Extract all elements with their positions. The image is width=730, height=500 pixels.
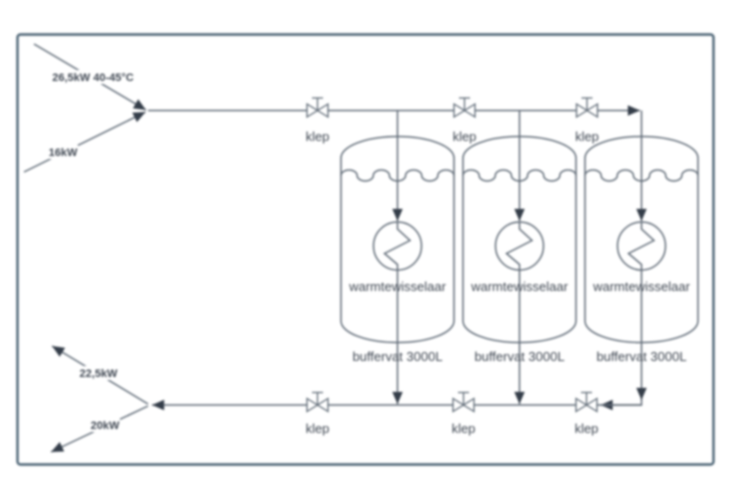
svg-text:klep: klep	[306, 129, 330, 144]
wire return line 20kW	[51, 406, 148, 452]
label 20kW	[90, 418, 120, 432]
svg-text:buffervat 3000L: buffervat 3000L	[352, 349, 442, 364]
heat exchanger U3	[618, 222, 666, 270]
wire supply line 16kW	[24, 112, 146, 172]
wire drop pipe to heat exchanger U1	[397, 111, 399, 222]
label 16kW	[49, 145, 78, 159]
vessel buffervat 1	[341, 137, 454, 343]
valve bottom 2	[453, 393, 474, 412]
svg-text:warmtewisselaar: warmtewisselaar	[470, 279, 568, 294]
svg-text:warmtewisselaar: warmtewisselaar	[592, 279, 690, 294]
svg-text:26,5kW 40-45°C: 26,5kW 40-45°C	[52, 72, 133, 84]
wire top pipe	[148, 110, 640, 112]
label 26,5kW 40-45C	[52, 70, 134, 84]
wire return pipe from U3 down	[641, 270, 643, 400]
wire drop pipe to heat exchanger U2	[519, 111, 521, 222]
valve bottom 3	[576, 393, 597, 412]
svg-text:klep: klep	[575, 421, 599, 436]
svg-text:22,5kW: 22,5kW	[80, 368, 119, 380]
heat exchanger U2	[496, 222, 544, 270]
wire return pipe from U1 to bottom pipe	[397, 270, 399, 404]
wire return pipe from U2 to bottom pipe	[519, 270, 521, 404]
svg-text:klep: klep	[453, 129, 477, 144]
vessel buffervat 2	[463, 137, 576, 343]
valve bottom 1	[307, 393, 328, 412]
valve top 2	[454, 98, 475, 117]
heat exchanger U1	[374, 222, 422, 270]
svg-text:klep: klep	[452, 421, 476, 436]
wire supply line 26,5kW	[34, 44, 146, 110]
wire return line 22,5kW	[52, 346, 148, 404]
valve top 3	[577, 98, 598, 117]
wire drop pipe to heat exchanger U3	[641, 111, 643, 222]
svg-text:klep: klep	[306, 421, 330, 436]
wire bottom pipe	[152, 404, 642, 406]
valve top 1	[307, 98, 328, 117]
svg-text:20kW: 20kW	[91, 420, 120, 432]
svg-text:klep: klep	[575, 129, 599, 144]
svg-text:warmtewisselaar: warmtewisselaar	[348, 279, 446, 294]
svg-text:buffervat 3000L: buffervat 3000L	[596, 349, 686, 364]
vessel buffervat 3	[585, 137, 698, 343]
svg-text:16kW: 16kW	[49, 147, 78, 159]
wire elbow from U3 to valve bottom 3	[601, 399, 642, 405]
label 22,5kW	[79, 366, 119, 380]
svg-text:buffervat 3000L: buffervat 3000L	[474, 349, 564, 364]
